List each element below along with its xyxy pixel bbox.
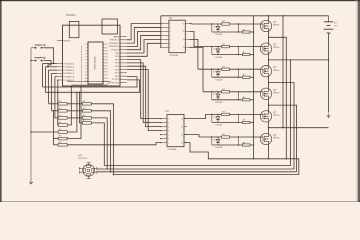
- svg-text:ATMEGA328P: ATMEGA328P: [94, 56, 97, 70]
- button S1: [33, 44, 45, 48]
- stepper motor M1: [79, 154, 97, 178]
- board bottom trapezoid: [67, 82, 110, 85]
- wires arduino to U1 inputs: [127, 24, 160, 57]
- svg-text:IRF540: IRF540: [273, 47, 279, 49]
- svg-text:TX PD1: TX PD1: [112, 79, 120, 81]
- svg-text:PD1: PD1: [105, 72, 108, 74]
- resistor A4 gate pulldown: [242, 96, 250, 101]
- resistor R10: [82, 120, 91, 124]
- svg-text:7: 7: [168, 142, 169, 144]
- phase tap row1/2: [269, 37, 287, 159]
- svg-text:PD5: PD5: [105, 59, 108, 61]
- svg-text:16: 16: [183, 23, 185, 25]
- svg-text:ULN2003A: ULN2003A: [169, 54, 179, 57]
- usb connector: [69, 22, 79, 38]
- svg-text:13: 13: [181, 142, 183, 144]
- driver row 1 wires: [192, 23, 261, 32]
- svg-text:PC1/ADC1: PC1/ADC1: [63, 66, 74, 69]
- svg-text:8: 8: [86, 66, 87, 68]
- arduino board U2: [63, 14, 121, 86]
- resistor feed wires: [48, 104, 58, 145]
- svg-text:PC4/ADC4: PC4/ADC4: [63, 76, 74, 79]
- resistor R4: [58, 122, 67, 126]
- resistor R12 gate series: [222, 66, 230, 70]
- driver row 2 wires: [194, 46, 261, 55]
- top power rail: [161, 15, 329, 17]
- svg-text:AREF: AREF: [113, 35, 119, 38]
- wire button S2 left: [30, 60, 31, 61]
- svg-text:13: 13: [183, 47, 185, 49]
- Q6 source return: [268, 144, 270, 159]
- gate rail vertical: [253, 16, 255, 159]
- battery down wire: [328, 33, 330, 113]
- svg-text:IRF540: IRF540: [273, 25, 279, 27]
- svg-text:PB4/MISO: PB4/MISO: [109, 43, 120, 45]
- wire A5 bundle: [56, 79, 59, 81]
- wires arduino to U3 inputs: [127, 60, 160, 131]
- wire button S2 to A1: [44, 61, 51, 67]
- wire A4 bundle: [55, 76, 57, 78]
- svg-text:3: 3: [86, 50, 87, 52]
- mosfet Q2: [260, 43, 279, 54]
- svg-text:PD2: PD2: [105, 50, 108, 52]
- mosfet Q6: [260, 133, 279, 144]
- svg-text:6: 6: [168, 138, 169, 140]
- svg-text:14: 14: [181, 134, 183, 136]
- svg-text:~ PD5: ~ PD5: [113, 66, 120, 68]
- svg-text:14: 14: [183, 39, 185, 41]
- svg-text:PD6: PD6: [105, 63, 108, 65]
- mcu ATMEGA328P U1chip: [82, 42, 108, 84]
- svg-text:1N4148: 1N4148: [215, 147, 222, 149]
- phase tap row3/4: [269, 83, 294, 170]
- diode D3: [213, 69, 222, 81]
- resistor A2 gate pulldown: [242, 51, 250, 56]
- U3 outputs routing to rows: [184, 114, 299, 174]
- wire button S1 to A0: [44, 48, 54, 64]
- svg-text:PB5/SCK: PB5/SCK: [110, 40, 120, 42]
- right resistor outputs to bottom verticals: [91, 104, 114, 176]
- svg-text:PD3: PD3: [105, 78, 108, 80]
- svg-text:PC0/ADC0: PC0/ADC0: [63, 62, 74, 65]
- diode D1: [213, 24, 222, 36]
- svg-text:1N4148: 1N4148: [215, 102, 222, 104]
- svg-text:~ PD6: ~ PD6: [113, 63, 120, 65]
- svg-text:1: 1: [86, 44, 87, 46]
- svg-text:PC3/ADC3: PC3/ADC3: [63, 72, 74, 75]
- wire A2 bundle: [48, 69, 57, 71]
- svg-text:PD2: PD2: [105, 75, 108, 77]
- resistor R10 gate series: [222, 21, 230, 25]
- svg-text:9: 9: [86, 69, 87, 71]
- svg-text:7: 7: [86, 63, 87, 65]
- svg-text:11: 11: [85, 75, 87, 77]
- mosfet Q3: [260, 66, 279, 77]
- svg-text:2: 2: [86, 47, 87, 49]
- svg-text:1N4148: 1N4148: [215, 57, 222, 59]
- U1 left bus from rail: [160, 16, 162, 48]
- svg-text:PD0: PD0: [105, 69, 108, 71]
- resistor A3 gate pulldown: [242, 74, 250, 79]
- button S2: [33, 57, 45, 61]
- svg-text:~ PB2/SS: ~ PB2/SS: [110, 50, 120, 52]
- driver IC U3: [160, 110, 187, 151]
- power jack: [102, 19, 117, 34]
- svg-text:PD7: PD7: [105, 66, 108, 68]
- ground left: [29, 48, 33, 184]
- driver row 4 wires: [203, 91, 261, 100]
- svg-text:6: 6: [86, 59, 87, 61]
- diode D2: [213, 47, 222, 59]
- phase tap row5/6 common: [269, 127, 329, 129]
- svg-text:PD4: PD4: [105, 56, 108, 58]
- wire A3 bundle: [52, 72, 57, 74]
- resistor A5 gate pulldown: [242, 119, 250, 124]
- resistor R11 gate series: [222, 44, 230, 48]
- svg-text:PC5/ADC5: PC5/ADC5: [63, 79, 74, 82]
- svg-text:RX PD0: RX PD0: [111, 83, 120, 85]
- board pin labels right: [108, 35, 120, 84]
- svg-text:5: 5: [86, 56, 87, 58]
- resistor R15 gate series: [222, 134, 230, 138]
- ground feed to R5: [30, 131, 31, 132]
- driver row 5 wires: [206, 114, 261, 123]
- long horizontal wires under board: [43, 77, 140, 93]
- svg-text:~ PD3: ~ PD3: [113, 73, 120, 75]
- svg-text:1: 1: [168, 118, 169, 120]
- svg-text:DUINO1: DUINO1: [66, 14, 76, 17]
- svg-text:15: 15: [181, 126, 183, 128]
- diode D5: [213, 114, 222, 126]
- svg-text:4: 4: [168, 130, 169, 132]
- svg-text:4: 4: [86, 53, 87, 55]
- resistor R6: [58, 136, 67, 140]
- svg-text:IRF540: IRF540: [273, 70, 279, 72]
- resistor R8: [82, 101, 91, 105]
- svg-text:12: 12: [85, 78, 87, 80]
- mosfet drain/source chain: [268, 15, 269, 134]
- phase tap row2/3 common to battery: [269, 59, 329, 61]
- resistor A1 gate pulldown: [242, 28, 250, 33]
- svg-text:~PB3/MOSI: ~PB3/MOSI: [108, 46, 120, 48]
- bottom bus wires: [104, 166, 298, 175]
- svg-text:1N4148: 1N4148: [215, 79, 222, 81]
- resistor R2: [58, 108, 67, 112]
- svg-text:10: 10: [85, 72, 87, 74]
- wire A0 bundle: [43, 63, 57, 65]
- resistor R7: [58, 142, 67, 146]
- board pin labels left: [63, 40, 74, 82]
- driver row 6 wires: [199, 136, 261, 145]
- mosfet Q1: [260, 20, 279, 31]
- driver IC U1: [160, 17, 189, 57]
- svg-text:IRF540: IRF540: [273, 92, 279, 94]
- battery B1: [324, 16, 338, 33]
- svg-text:IRF540: IRF540: [273, 115, 279, 117]
- svg-text:MOTOR-ST: MOTOR-ST: [79, 158, 88, 160]
- svg-text:RESET: RESET: [63, 40, 71, 42]
- svg-text:16: 16: [181, 118, 183, 120]
- svg-text:PD3: PD3: [105, 53, 108, 55]
- resistor R5: [58, 129, 67, 133]
- wire A1 bundle: [45, 66, 57, 68]
- svg-text:PC2/ADC2: PC2/ADC2: [63, 69, 74, 72]
- arduino right pin stubs: [120, 37, 127, 83]
- resistor column outputs: [67, 86, 160, 145]
- resistor R1: [58, 101, 67, 105]
- resistor R10: [82, 115, 91, 119]
- left channel verticals: [43, 64, 58, 126]
- resistor R9: [82, 108, 91, 112]
- resistor R13 gate series: [222, 89, 230, 93]
- svg-text:2: 2: [168, 122, 169, 124]
- svg-text:5: 5: [168, 134, 169, 136]
- U1 outputs routing to rows: [189, 24, 203, 92]
- phase tap row4/5: [269, 105, 297, 172]
- resistor R14 gate series: [222, 112, 230, 116]
- motor wires to bottom bus: [97, 168, 294, 170]
- svg-text:3: 3: [168, 126, 169, 128]
- arduino left pin stubs: [57, 41, 63, 81]
- driver row 3 wires: [198, 69, 261, 78]
- wire button S1 left: [31, 47, 33, 49]
- resistor R3: [58, 115, 67, 119]
- drain bus vertical: [282, 16, 284, 128]
- svg-text:15: 15: [183, 31, 185, 33]
- svg-text:ULN2003A: ULN2003A: [167, 148, 177, 151]
- svg-text:~ PB1: ~ PB1: [113, 53, 120, 55]
- svg-text:1N4148: 1N4148: [215, 125, 222, 127]
- ground right: [327, 114, 331, 118]
- diode D4: [213, 92, 222, 104]
- svg-text:1N4148: 1N4148: [215, 34, 222, 36]
- resistor A6 gate pulldown: [242, 141, 250, 146]
- svg-text:IRF540: IRF540: [273, 138, 279, 140]
- diode D6: [213, 137, 222, 149]
- mosfet Q5: [260, 111, 279, 122]
- mosfet Q4: [260, 88, 279, 99]
